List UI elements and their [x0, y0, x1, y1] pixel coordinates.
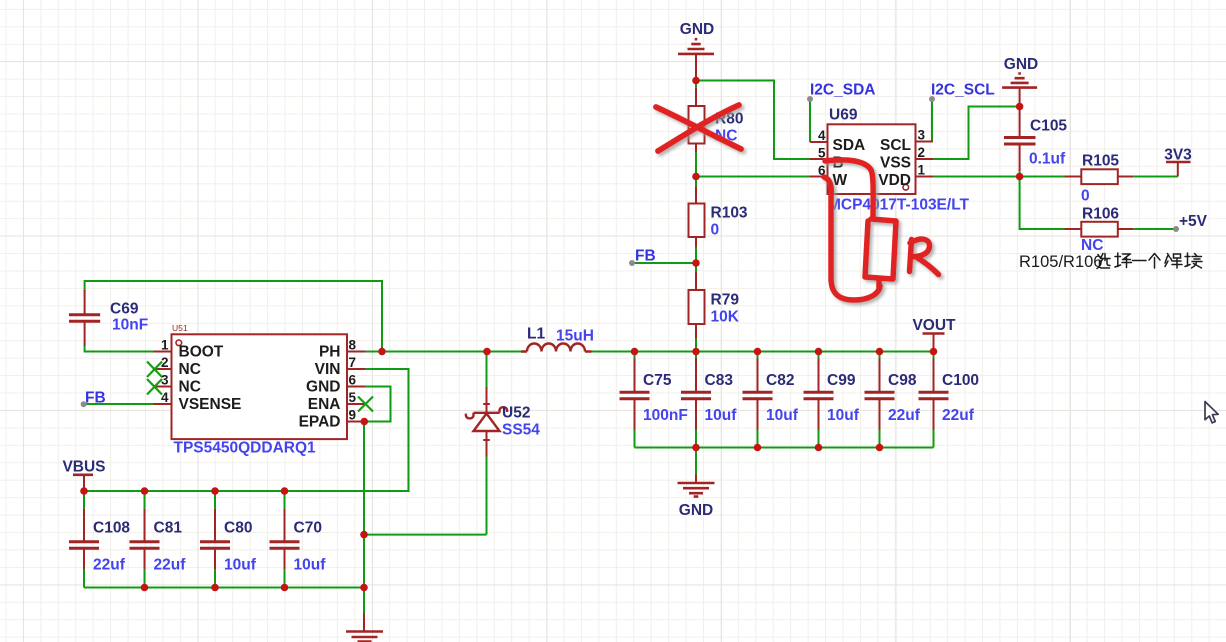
capacitor C75	[620, 359, 650, 431]
pin stubs U69 right	[916, 142, 934, 177]
stroke resistor bottom tail	[876, 280, 882, 288]
svg-text:22uf: 22uf	[888, 407, 921, 424]
inductor L1	[521, 344, 592, 352]
power bar 3V3	[1166, 161, 1191, 164]
letter R	[910, 240, 912, 272]
wire W net	[696, 176, 810, 178]
选	[1097, 254, 1110, 269]
svg-text:GND: GND	[680, 21, 714, 38]
wire VSS to C105 top	[933, 107, 1020, 160]
svg-text:8: 8	[349, 338, 357, 353]
svg-text:C83: C83	[705, 372, 734, 389]
svg-text:MCP4017T-103E/LT: MCP4017T-103E/LT	[828, 197, 970, 214]
svg-text:100nF: 100nF	[643, 407, 688, 424]
capacitor C99	[804, 359, 834, 431]
wire C69 bottom to BOOT	[85, 346, 154, 352]
capacitor C82	[743, 359, 773, 431]
ground top (inverted)	[678, 39, 714, 54]
svg-text:R105/R106: R105/R106	[1019, 253, 1102, 271]
wire GND-ENA loop	[364, 387, 391, 422]
svg-text:22uf: 22uf	[942, 407, 975, 424]
wire vbus caps verticals	[84, 491, 285, 588]
svg-text:FB: FB	[85, 390, 106, 407]
wire VIN to VBUS rail	[84, 369, 409, 491]
pin stubs U51 right	[347, 352, 365, 422]
node I2C_SDA	[807, 96, 813, 102]
svg-text:3V3: 3V3	[1164, 147, 1192, 164]
svg-text:3: 3	[918, 128, 926, 143]
resistor R106	[1081, 222, 1118, 237]
svg-text:0: 0	[1081, 188, 1090, 205]
node FB left	[81, 401, 87, 407]
svg-text:NC: NC	[179, 379, 201, 396]
svg-text:R106: R106	[1082, 206, 1119, 223]
R80 leads	[695, 88, 697, 152]
svg-text:9: 9	[349, 408, 357, 423]
capacitor C83	[681, 359, 711, 431]
wire diode top to rail	[486, 352, 488, 388]
svg-text:0: 0	[711, 222, 720, 239]
green X pin2 U51	[147, 362, 162, 378]
svg-text:10uf: 10uf	[766, 407, 799, 424]
svg-text:NC: NC	[179, 361, 201, 378]
U51 pin1 circle	[176, 340, 182, 346]
wire FB to VSENSE	[84, 403, 154, 405]
resistor sketch box	[865, 219, 896, 279]
op-amp U51 chip body	[172, 334, 348, 439]
VOUT stem	[933, 335, 935, 352]
node +5V	[1173, 226, 1179, 232]
resistor R79	[689, 290, 705, 324]
capacitor C80	[200, 509, 230, 569]
R79 leads	[695, 272, 697, 339]
wire R105 to 3V3	[1133, 176, 1178, 178]
svg-text:10nF: 10nF	[112, 317, 148, 334]
wire GND stem mid	[695, 448, 697, 475]
diode leads	[483, 387, 490, 457]
svg-text:22uf: 22uf	[154, 557, 187, 574]
svg-text:0.1uf: 0.1uf	[1029, 151, 1066, 168]
svg-text:C108: C108	[93, 520, 130, 537]
svg-text:1: 1	[161, 338, 169, 353]
svg-text:U69: U69	[829, 107, 858, 124]
resistor R103	[689, 204, 705, 238]
op-amp U69 chip body	[828, 124, 916, 194]
stroke W loop	[824, 177, 880, 300]
wire I2C_SDA drop	[809, 99, 811, 142]
svg-text:PH: PH	[319, 344, 341, 361]
wire I2C_SCL drop	[931, 99, 933, 142]
svg-text:VBUS: VBUS	[62, 459, 105, 476]
wire PH rail left of L1	[365, 351, 521, 353]
svg-text:22uf: 22uf	[93, 557, 126, 574]
node I2C_SCL	[929, 96, 935, 102]
right GND stem	[1019, 88, 1021, 107]
svg-text:R103: R103	[711, 205, 748, 222]
svg-text:W: W	[833, 172, 848, 189]
svg-text:R79: R79	[711, 292, 740, 309]
svg-text:VSS: VSS	[880, 155, 911, 172]
svg-text:FB: FB	[635, 248, 656, 265]
svg-text:C100: C100	[942, 372, 979, 389]
wire output caps verticals	[635, 352, 934, 448]
wire C69 top loop to PH	[85, 281, 382, 352]
svg-text:10uf: 10uf	[294, 557, 327, 574]
svg-text:SDA: SDA	[833, 137, 866, 154]
mid GND stem	[695, 475, 697, 484]
svg-text:10uf: 10uf	[224, 557, 257, 574]
green X pin3 U51	[147, 379, 162, 395]
EPAD ground stem	[363, 614, 365, 632]
svg-text:VIN: VIN	[315, 361, 341, 378]
capacitor C105	[1004, 138, 1036, 145]
stroke B pin to resistor top	[825, 160, 873, 216]
焊	[1165, 254, 1182, 269]
svg-text:C82: C82	[766, 372, 794, 389]
svg-text:GND: GND	[679, 502, 713, 519]
svg-text:4: 4	[818, 128, 826, 143]
node FB mid	[629, 260, 635, 266]
svg-text:10uf: 10uf	[705, 407, 738, 424]
svg-text:C80: C80	[224, 520, 252, 537]
svg-text:U51: U51	[172, 323, 188, 333]
svg-text:B: B	[833, 155, 844, 172]
R106 leads	[1065, 228, 1134, 230]
svg-text:C105: C105	[1030, 118, 1067, 135]
wire diode vertical lower	[486, 457, 488, 535]
resistor R105	[1081, 169, 1118, 184]
svg-text:I2C_SCL: I2C_SCL	[931, 82, 995, 99]
annotation hand-drawn resistor sketch	[824, 160, 939, 300]
C105 leads	[1019, 107, 1021, 172]
VBUS stem	[83, 476, 85, 491]
note R105/R106 chinese	[1019, 253, 1202, 271]
svg-text:15uH: 15uH	[556, 328, 594, 345]
svg-text:4: 4	[161, 390, 169, 405]
svg-text:GND: GND	[306, 379, 340, 396]
svg-text:C81: C81	[154, 520, 183, 537]
svg-text:I2C_SDA: I2C_SDA	[810, 82, 875, 99]
svg-text:7: 7	[349, 355, 357, 370]
capacitor C70	[270, 509, 300, 569]
wire B net	[696, 81, 810, 160]
top GND stem	[695, 54, 697, 81]
wire diode anode to EPAD net	[364, 534, 487, 536]
diode U52	[466, 407, 507, 431]
svg-text:VSENSE: VSENSE	[179, 396, 242, 413]
svg-text:+5V: +5V	[1179, 213, 1208, 230]
R103 leads	[695, 187, 697, 248]
wire output rail right of L1	[592, 351, 934, 353]
svg-text:5: 5	[818, 146, 826, 161]
wire junction down to R106	[1020, 177, 1065, 230]
svg-text:C75: C75	[643, 372, 672, 389]
svg-text:10uf: 10uf	[827, 407, 860, 424]
capacitor C69	[69, 315, 100, 322]
svg-text:2: 2	[918, 145, 926, 160]
R105 leads	[1065, 176, 1134, 178]
capacitor C81	[130, 509, 160, 569]
ground mid	[678, 483, 715, 497]
个	[1149, 254, 1160, 269]
capacitor C108	[69, 509, 99, 569]
svg-text:3: 3	[161, 373, 169, 388]
junction dots	[692, 77, 700, 85]
wire VBUS bottom rail	[84, 587, 364, 589]
annotation red X over R80	[656, 105, 741, 151]
U69 pin1 circle	[903, 185, 909, 191]
capacitor C100	[919, 359, 949, 431]
mouse cursor	[1205, 402, 1218, 423]
svg-text:SS54: SS54	[502, 422, 540, 439]
svg-text:2: 2	[161, 355, 169, 370]
wire VDD to C105 bottom junction	[933, 176, 1020, 178]
C69 leads	[84, 290, 86, 346]
wire EPAD down	[363, 422, 365, 614]
svg-text:C98: C98	[888, 372, 917, 389]
svg-text:C69: C69	[110, 301, 139, 318]
svg-text:10K: 10K	[711, 309, 740, 326]
wire output bottom rail	[635, 447, 934, 449]
svg-text:EPAD: EPAD	[299, 414, 341, 431]
svg-text:BOOT: BOOT	[179, 344, 224, 361]
svg-text:VOUT: VOUT	[912, 317, 956, 334]
svg-text:C99: C99	[827, 372, 856, 389]
ground right (inverted)	[1002, 74, 1037, 88]
svg-text:R105: R105	[1082, 153, 1119, 170]
power bar VBUS	[73, 473, 93, 476]
svg-text:5: 5	[349, 390, 357, 405]
pin stubs U51 left	[154, 352, 172, 405]
ground bottom-left	[346, 632, 383, 642]
wire FB mid	[632, 262, 696, 264]
一	[1133, 260, 1147, 262]
3V3 stem	[1177, 163, 1179, 177]
svg-text:L1: L1	[527, 326, 545, 343]
power bar VOUT	[923, 332, 945, 335]
wire top column segments	[695, 81, 697, 91]
pin stubs U69 left	[810, 142, 828, 177]
接	[1185, 253, 1202, 268]
择	[1115, 253, 1132, 268]
svg-text:ENA: ENA	[308, 396, 341, 413]
svg-text:1: 1	[918, 163, 926, 178]
svg-text:GND: GND	[1004, 56, 1038, 73]
svg-text:SCL: SCL	[880, 137, 911, 154]
wire C105 junction to R105	[1020, 171, 1065, 177]
svg-text:TPS5450QDDARQ1: TPS5450QDDARQ1	[174, 440, 317, 457]
svg-text:NC: NC	[1081, 237, 1103, 254]
green X pin5 ENA U51	[358, 397, 373, 412]
resistor R80	[689, 106, 705, 144]
capacitor C98	[865, 359, 895, 431]
svg-text:VDD: VDD	[878, 172, 911, 189]
svg-text:U52: U52	[502, 405, 530, 422]
svg-text:C70: C70	[294, 520, 322, 537]
wire R106 to +5V	[1133, 228, 1176, 230]
svg-text:6: 6	[349, 373, 357, 388]
